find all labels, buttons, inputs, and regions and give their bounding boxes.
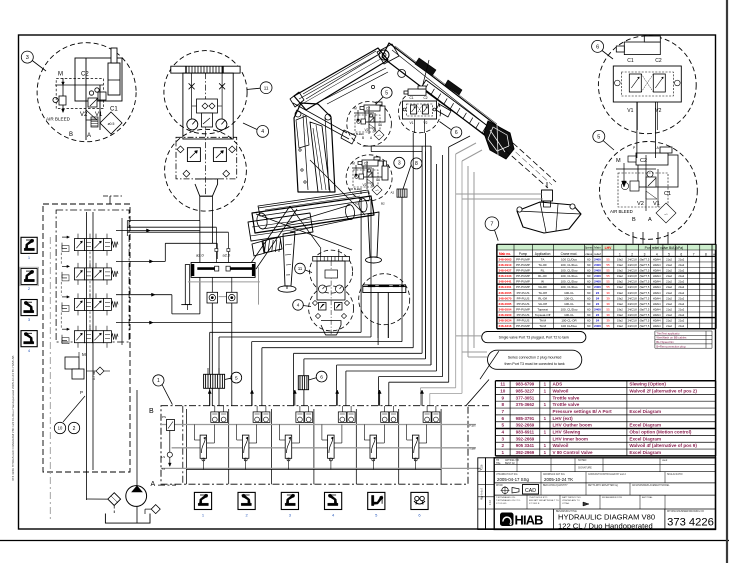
svg-text:Pressure settings B/ A Port: Pressure settings B/ A Port [553,409,613,414]
svg-text:3: 3 [644,252,646,256]
svg-text:SIGNATURE: SIGNATURE [578,467,592,470]
svg-text:B: B [149,408,154,415]
svg-text:2400: 2400 [594,280,601,284]
svg-text:7: 7 [501,409,504,414]
svg-text:LS: LS [162,455,166,459]
svg-text:PP-PUMP: PP-PUMP [516,263,530,267]
svg-text:6: 6 [501,416,504,421]
svg-text:985-3791: 985-3791 [516,416,535,421]
svg-text:4: 4 [297,303,300,308]
svg-text:RL-OF: RL-OF [538,274,547,278]
svg-text:1:10: 1:10 [488,499,492,505]
svg-text:Trottle valve: Trottle valve [553,395,580,400]
svg-text:V1: V1 [653,201,660,207]
svg-text:392-2669: 392-2669 [516,423,535,428]
svg-text:55: 55 [606,263,610,267]
svg-text:39: 39 [606,313,610,317]
svg-text:Topseat-Off: Topseat-Off [535,313,551,317]
svg-text:375-3662: 375-3662 [516,402,535,407]
svg-text:RL: RL [541,269,545,273]
svg-text:21a2: 21a2 [678,307,684,311]
svg-text:24/C3,8: 24/C3,8 [628,285,638,289]
svg-text:19a2: 19a2 [617,285,623,289]
svg-text:V2: V2 [655,108,661,114]
svg-text:Walvoil: Walvoil [553,443,569,448]
svg-text:2400: 2400 [594,257,601,261]
svg-text:BER ANTAL/QUANTITY: BER ANTAL/QUANTITY [543,484,568,487]
svg-text:TA: TA [541,257,545,261]
svg-text:5: 5 [385,90,388,96]
svg-text:24/C3,8: 24/C3,8 [628,274,638,278]
svg-text:8: 8 [415,161,418,167]
svg-text:19a2: 19a2 [617,280,623,284]
svg-text:348-0070: 348-0070 [498,296,511,300]
svg-text:GODKANT/CONTROLLED BY and d: GODKANT/CONTROLLED BY and d [588,473,626,476]
svg-text:19a2: 19a2 [617,296,623,300]
svg-text:HD/H4: HD/H4 [653,324,661,328]
svg-text:B=Remconnection plug: B=Remconnection plug [656,344,685,348]
svg-text:V2: V2 [80,112,88,118]
svg-text:VA-Off: VA-Off [538,302,547,306]
svg-text:Excel Diagram: Excel Diagram [629,450,661,455]
svg-text:24: 24 [596,319,600,323]
svg-text:V2: V2 [363,183,367,187]
svg-text:24/C3,8: 24/C3,8 [628,257,638,261]
svg-text:348-0063: 348-0063 [498,257,511,261]
svg-text:1: 1 [157,378,160,384]
svg-text:348-0433: 348-0433 [498,274,511,278]
svg-text:C1: C1 [627,58,634,64]
svg-text:100, CL/Duo: 100, CL/Duo [561,307,578,311]
svg-text:TA M: TA M [539,319,546,323]
svg-text:2400: 2400 [594,269,601,273]
svg-text:DETTA RITN ERSATTER/ Ag: DETTA RITN ERSATTER/ Ag [588,484,619,487]
svg-text:ADS: ADS [553,382,563,387]
svg-text:10: 10 [58,426,63,431]
svg-text:TA M: TA M [539,324,546,328]
svg-text:(9a/T7,5: (9a/T7,5 [640,274,650,278]
svg-text:(9a/T7,5: (9a/T7,5 [640,296,650,300]
svg-text:T3R: T3R [469,447,476,451]
svg-text:4: 4 [501,429,504,434]
svg-text:Excel Diagram: Excel Diagram [629,436,661,441]
svg-text:a2.0: a2.0 [196,253,205,258]
svg-text:21a2: 21a2 [666,269,672,273]
svg-text:(9a/T7,5: (9a/T7,5 [640,319,650,323]
svg-text:55: 55 [606,274,610,278]
svg-text:Obs! option (Motion control): Obs! option (Motion control) [629,429,691,434]
svg-text:HD/H4: HD/H4 [653,280,661,284]
svg-text:11: 11 [264,85,269,90]
svg-text:(9a/T7,5: (9a/T7,5 [640,291,650,295]
svg-text:LHV (ext): LHV (ext) [553,416,574,421]
svg-text:21a2: 21a2 [678,296,684,300]
svg-text:PP-PUMP: PP-PUMP [516,307,530,311]
svg-text:373 4226: 373 4226 [667,517,714,529]
svg-text:55: 55 [606,257,610,261]
svg-text:PP-PUMP: PP-PUMP [516,285,530,289]
svg-text:HD/H4: HD/H4 [653,274,661,278]
svg-text:2400: 2400 [594,263,601,267]
svg-text:PP-PLUS: PP-PLUS [517,319,530,323]
svg-text:8: 8 [501,402,504,407]
svg-text:3: 3 [26,55,29,61]
svg-text:60: 60 [587,285,591,289]
svg-text:HD/H4: HD/H4 [653,285,661,289]
svg-text:2: 2 [501,443,504,448]
svg-text:5: 5 [597,134,600,140]
svg-text:NOTED: NOTED [578,459,587,462]
svg-text:M: M [616,158,621,164]
svg-text:RITNINGSNUMMER/DRAWING NO: RITNINGSNUMMER/DRAWING NO [667,510,704,513]
svg-text:then Port T3 must be conected: then Port T3 must be conected to tank [505,362,565,366]
svg-text:19a2: 19a2 [617,307,623,311]
svg-text:19a2: 19a2 [617,324,623,328]
svg-text:392-2969: 392-2969 [516,450,535,455]
svg-text:24: 24 [596,296,600,300]
svg-text:24: 24 [596,302,600,306]
svg-text:C2: C2 [655,58,662,64]
svg-text:24: 24 [596,313,600,317]
svg-text:21a2: 21a2 [678,269,684,273]
svg-text:T.RITN/BASED ON:: T.RITN/BASED ON: [496,496,516,499]
svg-text:55: 55 [606,280,610,284]
svg-text:VINSTAD ARV TO: VINSTAD ARV TO [562,499,580,502]
svg-text:(9a/T7,5: (9a/T7,5 [640,313,650,317]
svg-text:24: 24 [596,291,600,295]
svg-text:100-CL: 100-CL [564,313,574,317]
svg-text:HD/H4: HD/H4 [653,296,661,300]
svg-text:V2: V2 [424,121,428,125]
svg-text:LHV Outher boom: LHV Outher boom [553,423,592,428]
svg-text:21a2: 21a2 [678,319,684,323]
svg-text:21a2: 21a2 [666,291,672,295]
svg-text:M: M [82,352,86,357]
svg-text:Single valve Port T3 plugged,: Single valve Port T3 plugged, Port T2 to… [499,336,570,340]
svg-text:SKALA/ RATIO: SKALA/ RATIO [667,473,683,476]
svg-text:60: 60 [587,319,591,323]
svg-text:21a2: 21a2 [678,291,684,295]
svg-text:TA-Off: TA-Off [538,291,547,295]
svg-text:B: B [69,132,73,138]
svg-text:905 3341: 905 3341 [516,443,535,448]
svg-text:21a2: 21a2 [678,324,684,328]
svg-text:C1: C1 [410,96,414,100]
svg-text:HIAB: HIAB [515,512,544,527]
svg-text:21a2: 21a2 [678,257,684,261]
svg-text:Excel Diagram: Excel Diagram [629,423,661,428]
svg-text:100 CL/Duo: 100 CL/Duo [561,324,577,328]
svg-text:C2: C2 [81,72,89,78]
svg-text:V1: V1 [373,128,377,132]
svg-text:39: 39 [606,302,610,306]
svg-text:ST 1903 B: ST 1903 B [529,503,540,505]
svg-text:M: M [58,72,63,78]
svg-text:LHV: LHV [605,246,613,250]
svg-text:PP-PLUS: PP-PLUS [517,291,530,295]
svg-text:4: 4 [656,252,658,256]
svg-text:VA-OF: VA-OF [538,285,547,289]
svg-text:2: 2 [631,252,633,256]
svg-text:HD/H4: HD/H4 [653,319,661,323]
svg-text:BENT AV: BENT AV [505,462,515,465]
svg-text:9: 9 [501,395,504,400]
svg-text:RITAD: RITAD [496,484,503,487]
svg-text:TBa: TBa [496,462,501,465]
svg-text:relief: relief [594,252,601,256]
svg-text:IT ALT/GODK ETC.: IT ALT/GODK ETC. [529,496,548,499]
svg-text:21a2: 21a2 [678,263,684,267]
svg-text:348-0504: 348-0504 [498,307,511,311]
svg-text:ANT/TRAL: ANT/TRAL [642,496,653,499]
svg-text:P3R: P3R [469,424,476,428]
svg-text:C2: C2 [364,162,368,166]
svg-text:HD/H4: HD/H4 [653,291,661,295]
svg-text:39: 39 [606,296,610,300]
svg-text:A: A [87,133,91,139]
svg-text:24/C3,8: 24/C3,8 [628,319,638,323]
svg-text:Mab no.: Mab no. [499,252,511,256]
svg-text:21a2: 21a2 [666,274,672,278]
svg-text:39: 39 [606,291,610,295]
svg-text:4226: 4226 [481,464,484,470]
svg-text:373 4226 HYDRAULIC DIAGRAM V80: 373 4226 HYDRAULIC DIAGRAM V80 122 CL/Du… [11,356,15,481]
svg-text:HD/H4: HD/H4 [653,307,661,311]
svg-text:W: W [541,280,544,284]
svg-text:348-3316: 348-3316 [498,324,511,328]
svg-text:6: 6 [680,252,682,256]
svg-text:60: 60 [587,296,591,300]
svg-text:100, CL/Duo: 100, CL/Duo [561,285,578,289]
svg-text:60: 60 [587,313,591,317]
svg-text:C1: C1 [110,107,118,113]
svg-text:2: 2 [73,426,76,432]
svg-text:21a2: 21a2 [666,257,672,261]
svg-text:T2: T2 [162,467,166,471]
svg-text:11: 11 [500,382,505,387]
svg-text:100-CL-OR: 100-CL-OR [561,319,577,323]
svg-text:V1: V1 [627,108,633,114]
svg-text:used: used [662,459,668,462]
svg-text:Topseat: Topseat [537,307,548,311]
svg-text:B: B [362,136,364,140]
svg-text:Trottle valve: Trottle valve [553,402,580,407]
svg-text:A: A [648,217,652,223]
svg-text:100-CL: 100-CL [564,302,574,306]
svg-text:60: 60 [587,274,591,278]
svg-text:(9a/T7,5: (9a/T7,5 [640,280,650,284]
svg-text:HD/H4: HD/H4 [653,302,661,306]
svg-text:ANVANDS/REPLACEMENT MODEL: ANVANDS/REPLACEMENT MODEL [632,484,670,487]
svg-text:C2: C2 [640,158,647,164]
svg-text:2400: 2400 [594,274,601,278]
svg-text:24/C3,8: 24/C3,8 [628,291,638,295]
svg-text:6: 6 [455,130,458,136]
svg-text:21a2: 21a2 [666,313,672,317]
svg-text:TA-OF: TA-OF [538,263,547,267]
svg-text:P: P [80,390,83,395]
svg-text:Main: Main [594,246,601,250]
svg-text:(9a/T7,5: (9a/T7,5 [640,285,650,289]
svg-text:M: M [352,162,355,166]
svg-text:21a2: 21a2 [666,307,672,311]
svg-text:100 CL/Duo: 100 CL/Duo [561,257,577,261]
svg-text:ERSTATT ERSATTER ALT TO:: ERSTATT ERSATTER ALT TO: [529,499,560,502]
svg-text:PP-PUMP: PP-PUMP [516,269,530,273]
svg-text:5: 5 [501,423,504,428]
svg-text:100, CL/Duo: 100, CL/Duo [561,280,578,284]
svg-text:PP-PLUS: PP-PLUS [517,296,530,300]
svg-text:7: 7 [490,222,493,228]
svg-text:55: 55 [606,269,610,273]
svg-text:122 CL / Duo Handoperated: 122 CL / Duo Handoperated [558,521,653,530]
svg-text:60: 60 [587,324,591,328]
svg-text:6: 6 [320,374,323,380]
svg-text:348-0910: 348-0910 [498,263,511,267]
svg-text:39: 39 [606,319,610,323]
svg-text:V2: V2 [637,201,644,207]
svg-text:21a2: 21a2 [678,285,684,289]
svg-text:(9a/T7,5: (9a/T7,5 [640,269,650,273]
svg-text:UTFARDAT DAT SIG: UTFARDAT DAT SIG [496,473,518,476]
svg-text:B2: B2 [381,202,385,206]
svg-text:(9a/T7,5: (9a/T7,5 [640,257,650,261]
svg-text:24/C3,8: 24/C3,8 [628,302,638,306]
svg-text:5: 5 [235,375,238,381]
svg-text:1: 1 [619,252,621,256]
svg-text:M: M [354,107,357,111]
svg-text:BW ANVANDB 1293: BW ANVANDB 1293 [602,496,623,499]
svg-text:Slewing (Option): Slewing (Option) [629,382,666,387]
svg-text:24/C3,8: 24/C3,8 [628,280,638,284]
svg-text:(9a/T7,5: (9a/T7,5 [640,307,650,311]
svg-text:C2: C2 [366,107,370,111]
svg-text:A: A [151,481,156,488]
svg-text:100, CL/Duo: 100, CL/Duo [561,263,578,267]
svg-text:AIR BLEED: AIR BLEED [610,209,633,214]
svg-text:A2: A2 [391,191,395,195]
svg-text:19a2: 19a2 [617,263,623,267]
svg-text:60: 60 [587,302,591,306]
svg-text:B: B [360,191,362,195]
svg-text:C1: C1 [378,123,382,127]
svg-text:60: 60 [587,257,591,261]
svg-text:4: 4 [261,129,264,135]
svg-text:348-0085: 348-0085 [498,302,511,306]
svg-text:348-0441: 348-0441 [498,280,511,284]
svg-text:class: class [585,252,592,256]
svg-text:100-CL: 100-CL [564,291,574,295]
svg-text:19a2: 19a2 [617,319,623,323]
svg-text:AIR BLEED: AIR BLEED [46,117,71,122]
svg-text:21a2: 21a2 [666,324,672,328]
svg-text:ST UD HD: ST UD HD [496,503,507,505]
svg-text:T.RITN/BASED ON 2 TO:: T.RITN/BASED ON 2 TO: [496,499,521,502]
svg-text:1: 1 [501,450,504,455]
svg-text:8: 8 [705,252,707,256]
svg-text:60: 60 [587,307,591,311]
svg-text:21a2: 21a2 [666,285,672,289]
svg-text:19a2: 19a2 [617,269,623,273]
svg-text:21a2: 21a2 [666,263,672,267]
svg-text:UTTAG: UTTAG [562,502,570,505]
svg-text:Excel Diagram: Excel Diagram [629,409,661,414]
svg-text:348-0461: 348-0461 [498,285,511,289]
svg-text:LHV Inner boom: LHV Inner boom [553,436,588,441]
svg-text:Pump: Pump [519,252,528,256]
svg-text:377-3051: 377-3051 [516,395,535,400]
svg-text:100, CL/Duo: 100, CL/Duo [561,269,578,273]
svg-text:A2: A2 [355,202,359,206]
svg-text:a2.0: a2.0 [223,253,232,258]
svg-text:ø0.5: ø0.5 [108,122,115,126]
svg-text:55: 55 [606,285,610,289]
svg-text:Walvoil 4f (alternative o: Walvoil 4f (alternative of pos 9) [629,443,697,448]
svg-text:985-3227: 985-3227 [516,388,535,393]
svg-text:5: 5 [668,252,670,256]
svg-text:(9a/T7,5: (9a/T7,5 [640,263,650,267]
svg-text:55: 55 [606,324,610,328]
svg-text:C1: C1 [376,178,380,182]
svg-text:348-0427: 348-0427 [498,269,511,273]
svg-text:CAD: CAD [525,488,536,494]
svg-text:HD/H4: HD/H4 [653,269,661,273]
svg-text:60: 60 [587,280,591,284]
svg-text:PS: PS [162,415,166,419]
svg-text:24/C3,8: 24/C3,8 [628,313,638,317]
svg-text:2400: 2400 [594,285,601,289]
svg-text:V 80 Control Valve: V 80 Control Valve [553,450,594,455]
svg-text:21a2: 21a2 [666,302,672,306]
svg-text:19a2: 19a2 [617,313,623,317]
svg-text:B: B [632,217,636,223]
svg-text:100, CL/Duo: 100, CL/Duo [561,274,578,278]
svg-text:V1: V1 [371,183,375,187]
svg-text:Application: Application [535,252,551,256]
svg-text:983-6799: 983-6799 [516,382,535,387]
svg-text:ANDRINGS DAT SIG: ANDRINGS DAT SIG [543,473,565,476]
svg-text:55: 55 [606,307,610,311]
svg-text:LHV Slewing: LHV Slewing [553,429,581,434]
svg-text:HD/H4: HD/H4 [653,313,661,317]
svg-text:21a2: 21a2 [678,280,684,284]
svg-text:RL-Off: RL-Off [538,296,547,300]
svg-text:PP-PUMP: PP-PUMP [516,324,530,328]
svg-text:24/C3,8: 24/C3,8 [628,269,638,273]
svg-text:2400: 2400 [594,307,601,311]
svg-text:19a2: 19a2 [617,257,623,261]
svg-text:3: 3 [398,161,401,167]
svg-text:60: 60 [587,263,591,267]
svg-text:983-6911: 983-6911 [516,429,535,434]
svg-text:C1: C1 [664,191,671,197]
svg-text:V2: V2 [365,128,369,132]
svg-text:Series connection 2 plug moun: Series connection 2 plug mounted [508,355,562,359]
svg-text:PP-PUMP: PP-PUMP [516,274,530,278]
svg-text:10: 10 [500,388,506,393]
svg-text:7: 7 [693,252,695,256]
svg-text:C2: C2 [424,96,428,100]
svg-text:PP-PLUS: PP-PLUS [517,313,530,317]
svg-text:21a2: 21a2 [666,296,672,300]
svg-text:PP-PUMP: PP-PUMP [516,257,530,261]
svg-text:21a2: 21a2 [666,280,672,284]
svg-text:6: 6 [596,44,599,50]
svg-text:60: 60 [587,269,591,273]
svg-text:PP-PLUS: PP-PLUS [517,302,530,306]
svg-text:21a2: 21a2 [678,302,684,306]
svg-text:V1: V1 [410,121,414,125]
